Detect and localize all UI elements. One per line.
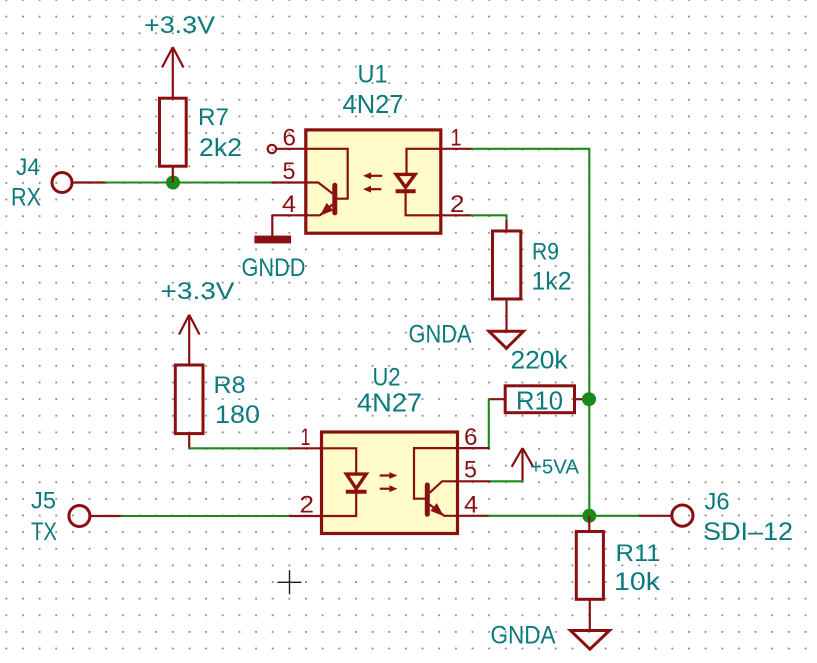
wire U1 pin4 to GNDD bbox=[271, 215, 273, 235]
svg-text:6: 6 bbox=[283, 125, 297, 152]
U2 pin 6 bbox=[458, 447, 489, 449]
svg-text:GNDA: GNDA bbox=[491, 622, 556, 650]
U2 phototransistor bbox=[414, 448, 458, 516]
svg-text:R8: R8 bbox=[214, 372, 246, 399]
svg-text:GNDA: GNDA bbox=[409, 321, 472, 349]
svg-text:RX: RX bbox=[11, 184, 41, 212]
svg-text:R7: R7 bbox=[198, 104, 229, 131]
svg-text:R10: R10 bbox=[516, 386, 563, 416]
U1 pin 1 bbox=[441, 148, 472, 150]
svg-text:4N27: 4N27 bbox=[343, 89, 404, 119]
svg-text:GNDD: GNDD bbox=[242, 254, 306, 282]
resistor R9 bbox=[493, 220, 521, 331]
wire R10 to U2 pin6 bbox=[488, 399, 490, 448]
wire U1 pin2 to R9 bbox=[472, 215, 507, 221]
opto U2 body bbox=[322, 432, 458, 534]
svg-text:180: 180 bbox=[215, 401, 260, 429]
svg-text:1: 1 bbox=[301, 424, 311, 451]
ground GNDA (lower) bbox=[571, 631, 610, 650]
op-to U1 body bbox=[306, 130, 441, 233]
U2 light arrows bbox=[380, 472, 398, 492]
wire R8 to U2 pin1 bbox=[189, 447, 290, 449]
wire TX net J5 to U2 pin2 bbox=[90, 515, 290, 517]
svg-text:SDI–12: SDI–12 bbox=[703, 518, 793, 546]
U2 pin 4 bbox=[458, 515, 489, 517]
svg-text:+3.3V: +3.3V bbox=[161, 278, 235, 305]
svg-text:J4: J4 bbox=[16, 154, 40, 181]
U1 pin 2 bbox=[441, 214, 472, 216]
power symbol +3.3V (lower) bbox=[179, 315, 200, 365]
junction SDI-12 bus bbox=[582, 509, 596, 523]
svg-text:2: 2 bbox=[300, 492, 315, 519]
svg-text:5: 5 bbox=[283, 158, 296, 185]
U1 pin 5 bbox=[272, 181, 306, 183]
origin cross marker bbox=[278, 570, 302, 594]
U1 LED bbox=[396, 149, 441, 216]
U1 light arrows bbox=[363, 172, 382, 192]
svg-text:1: 1 bbox=[451, 125, 462, 152]
resistor R7 bbox=[160, 98, 187, 182]
connector J4 bbox=[52, 173, 72, 193]
wire U1 pin1 to SDI-12 bus bbox=[472, 149, 590, 516]
svg-text:4: 4 bbox=[282, 191, 296, 218]
svg-text:J6: J6 bbox=[705, 489, 730, 516]
svg-text:4N27: 4N27 bbox=[357, 388, 422, 418]
svg-text:TX: TX bbox=[31, 518, 57, 546]
svg-text:+3.3V: +3.3V bbox=[144, 12, 215, 39]
U1 phototransistor bbox=[306, 149, 348, 216]
ground GNDD bbox=[254, 236, 291, 244]
connector J5 bbox=[69, 506, 90, 527]
wire U2 pin4 to J6 bbox=[489, 515, 672, 517]
wire RX net J4 to U1 pin5 bbox=[73, 181, 273, 183]
junction RX net bbox=[166, 176, 180, 190]
svg-text:R11: R11 bbox=[616, 540, 661, 567]
svg-text:J5: J5 bbox=[31, 488, 56, 515]
svg-text:5: 5 bbox=[464, 457, 477, 484]
U2 pin 1 bbox=[290, 447, 322, 449]
svg-text:4: 4 bbox=[464, 492, 478, 519]
power symbol +5VA bbox=[512, 448, 534, 481]
svg-text:2: 2 bbox=[450, 191, 465, 218]
svg-text:6: 6 bbox=[464, 424, 478, 451]
svg-text:220k: 220k bbox=[511, 347, 569, 375]
svg-text:10k: 10k bbox=[614, 568, 661, 596]
U2 LED bbox=[322, 448, 367, 516]
svg-text:1k2: 1k2 bbox=[532, 268, 572, 296]
svg-text:R9: R9 bbox=[532, 239, 559, 266]
resistor R8 bbox=[175, 365, 203, 448]
wire U2 pin5 to +5VA bbox=[491, 480, 523, 482]
svg-text:+5VA: +5VA bbox=[530, 457, 580, 479]
U2 pin 5 bbox=[458, 480, 491, 482]
ground GNDA (upper) bbox=[489, 331, 524, 348]
U1 pin 4 bbox=[272, 214, 306, 216]
svg-text:2k2: 2k2 bbox=[199, 134, 242, 162]
connector J6 bbox=[672, 505, 693, 526]
junction R10 to bus bbox=[582, 392, 596, 406]
resistor R11 bbox=[576, 516, 603, 631]
power symbol +3.3V (top) bbox=[162, 47, 184, 98]
resistor R10 bbox=[489, 386, 589, 413]
U2 pin 2 bbox=[290, 515, 322, 517]
U1 pin 6 bbox=[268, 145, 306, 153]
svg-text:U1: U1 bbox=[358, 61, 388, 89]
